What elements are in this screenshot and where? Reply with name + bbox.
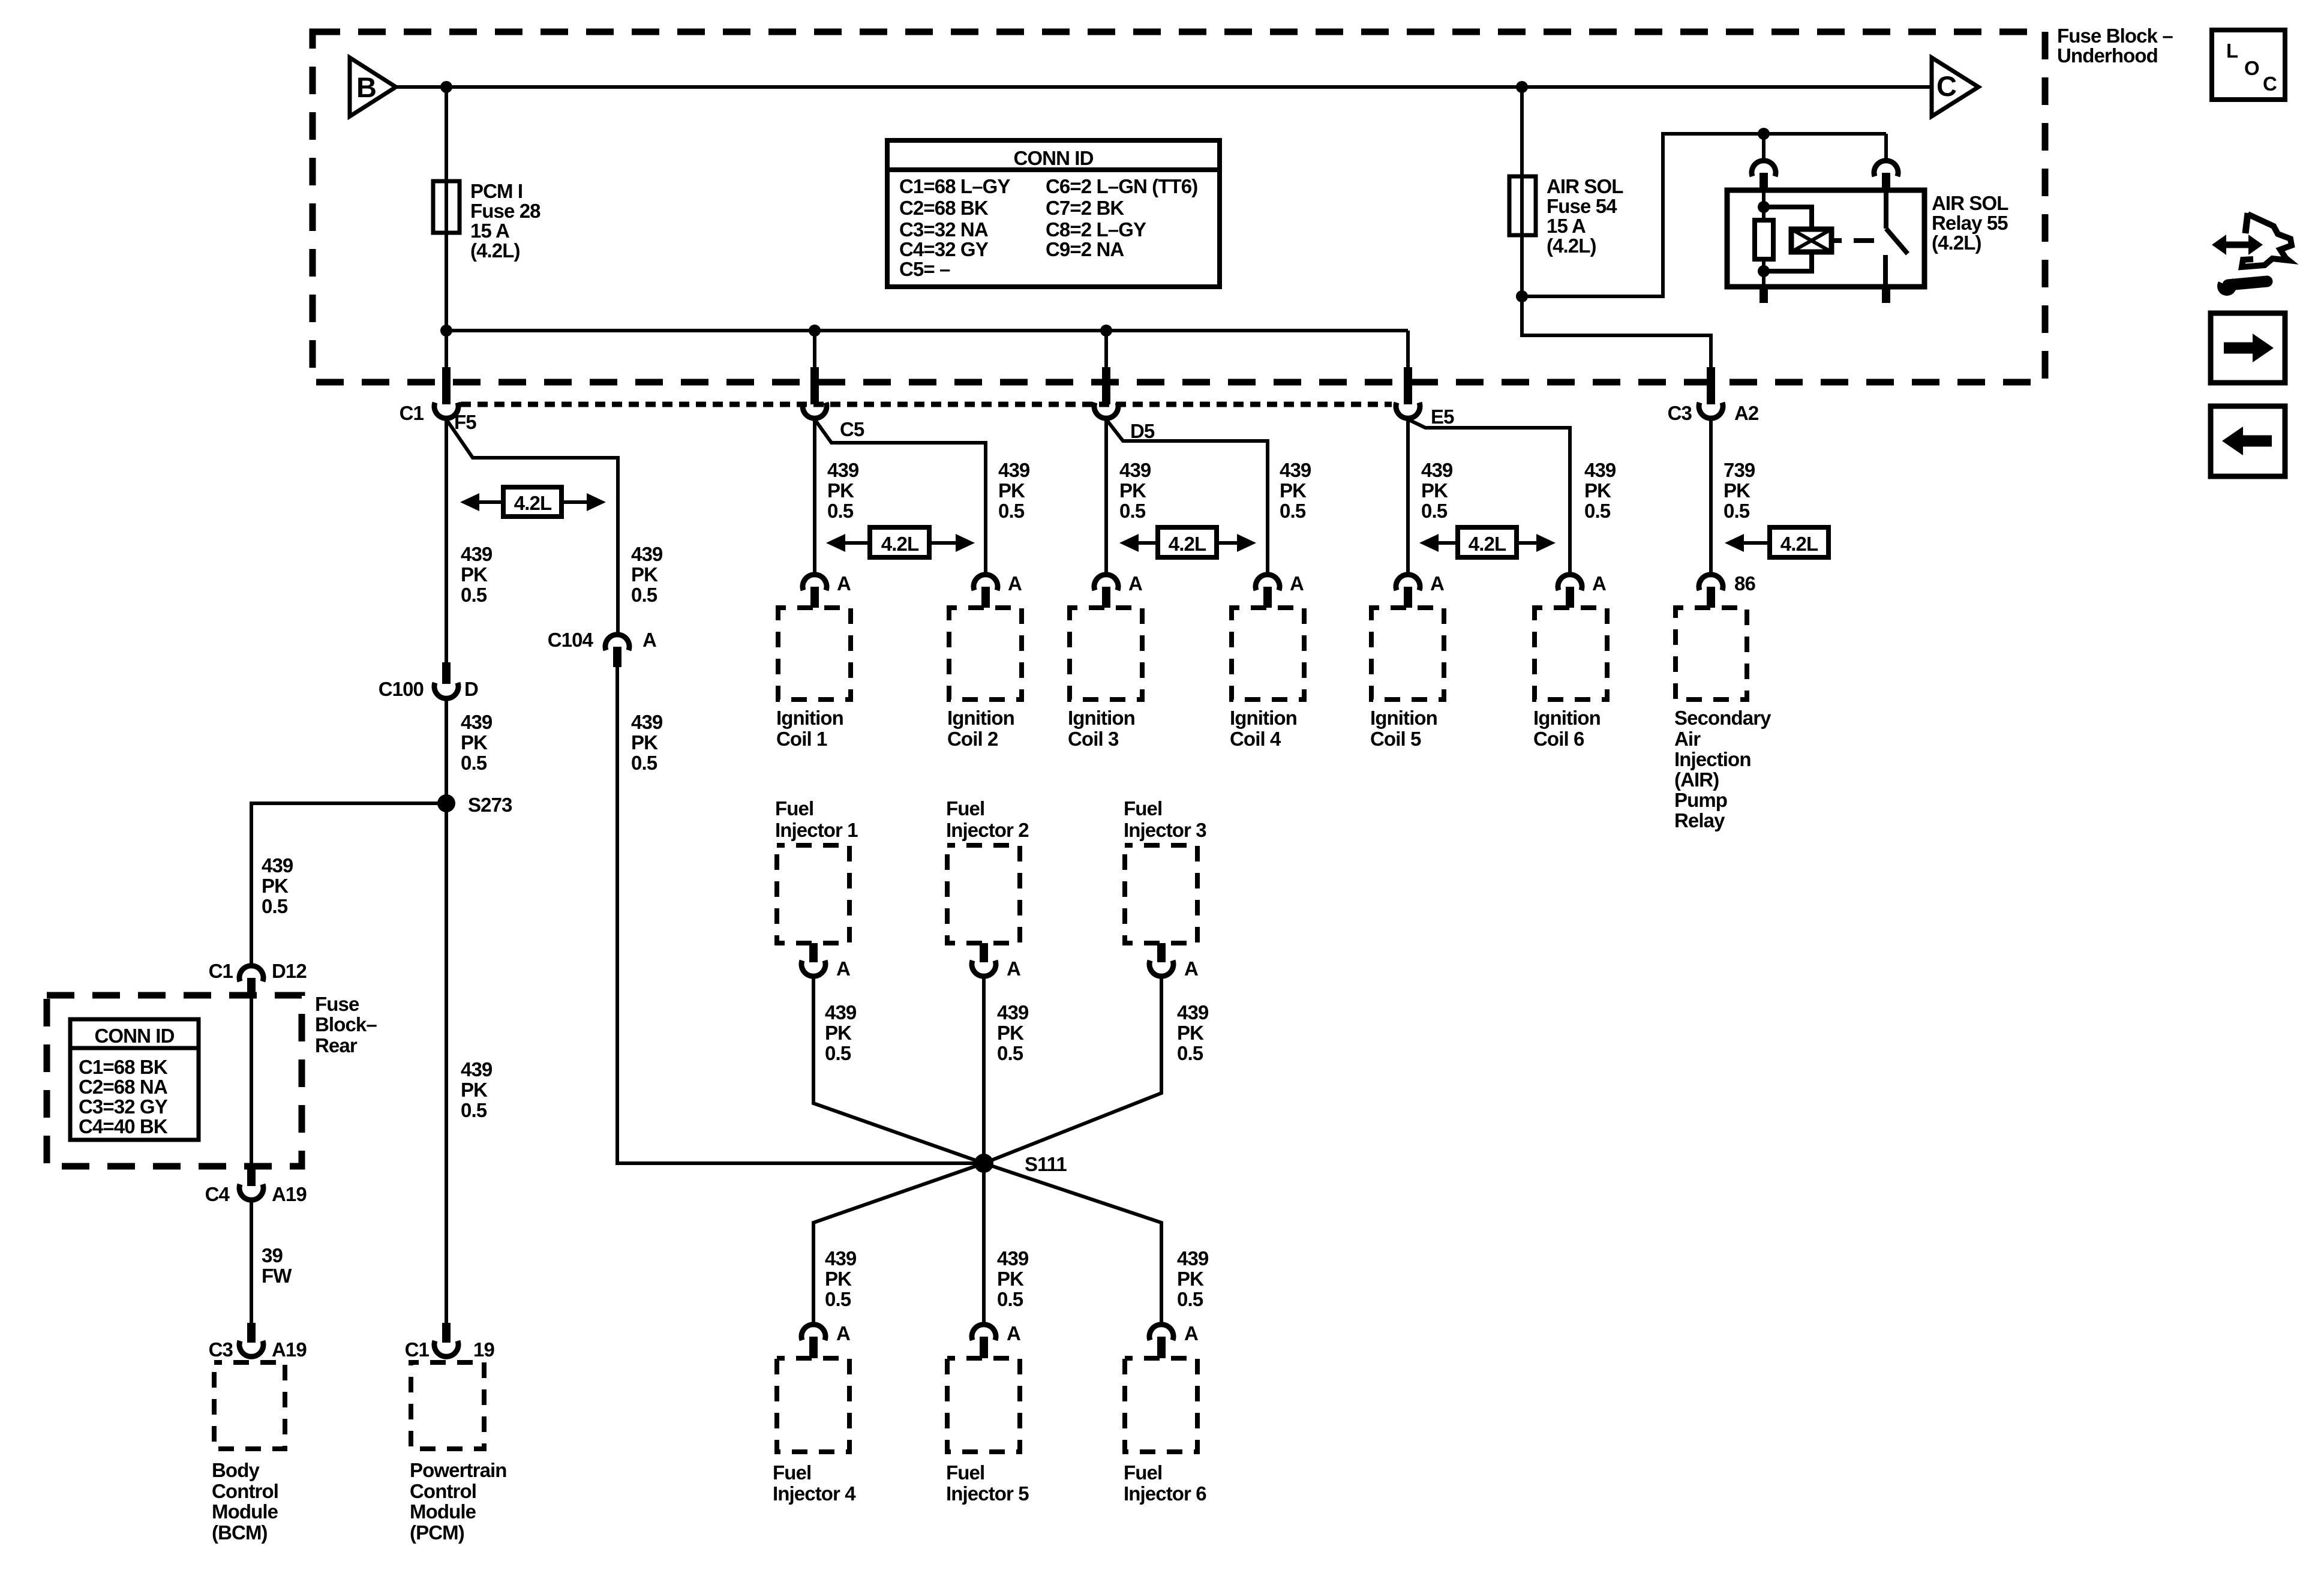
svg-text:A: A	[836, 1322, 850, 1344]
svg-text:C8=2 L–GY: C8=2 L–GY	[1046, 218, 1146, 241]
svg-text:C1: C1	[400, 402, 424, 424]
svg-text:PK: PK	[461, 563, 488, 586]
svg-text:C4=32 GY: C4=32 GY	[899, 238, 989, 260]
svg-text:Fuel: Fuel	[773, 1461, 811, 1484]
svg-text:439: 439	[1421, 459, 1453, 481]
wire injector 3 to S111	[984, 977, 1161, 1163]
ignition coil 5 box	[1371, 608, 1444, 700]
pin stub relay pin 87	[1882, 287, 1890, 303]
connector C100 pin stub	[442, 662, 451, 684]
svg-text:439: 439	[827, 459, 859, 481]
right arrow box	[2211, 313, 2285, 383]
svg-text:0.5: 0.5	[825, 1288, 851, 1310]
svg-text:FW: FW	[262, 1265, 292, 1287]
svg-text:439: 439	[825, 1247, 857, 1269]
svg-text:Block–: Block–	[315, 1013, 377, 1035]
tool icon wrench	[2217, 277, 2236, 296]
svg-text:Coil 1: Coil 1	[776, 728, 827, 750]
svg-text:0.5: 0.5	[825, 1042, 851, 1064]
connector arc injector 4 pin A	[801, 1325, 825, 1340]
pin stub relay pin 85	[1759, 287, 1768, 303]
svg-text:Control: Control	[212, 1480, 278, 1502]
svg-text:C2=68 NA: C2=68 NA	[79, 1076, 167, 1098]
svg-text:PK: PK	[631, 563, 658, 586]
svg-text:Ignition: Ignition	[1230, 707, 1297, 729]
connector arc relay pin 2	[1874, 161, 1898, 176]
CONN ID table (rear)	[70, 1019, 199, 1140]
connector D5 cup	[1094, 403, 1118, 418]
fuel injector 1 cup A	[801, 960, 825, 976]
svg-text:Injector 6: Injector 6	[1124, 1482, 1206, 1505]
svg-text:C5: C5	[840, 418, 864, 440]
svg-text:86: 86	[1734, 572, 1755, 595]
fuel injector 1 label	[775, 797, 858, 841]
splice S111	[974, 1154, 993, 1173]
junction node coil bottom	[1758, 265, 1770, 277]
svg-text:C1: C1	[405, 1338, 430, 1361]
svg-text:Module: Module	[212, 1500, 278, 1523]
svg-text:0.5: 0.5	[1584, 500, 1611, 522]
svg-text:PK: PK	[461, 1079, 488, 1101]
wire relay coil branch	[1762, 191, 1765, 220]
svg-text:4.2L: 4.2L	[1780, 533, 1818, 555]
fuel injector 2 label	[946, 797, 1029, 841]
4.2L tag 3	[1158, 527, 1217, 557]
svg-text:C: C	[2263, 73, 2277, 95]
tool icon outline	[2245, 213, 2248, 233]
connector E5 pin stub	[1404, 367, 1412, 404]
wire label 439 PK 0.5 (inj6)	[1177, 1247, 1209, 1310]
svg-text:C1: C1	[209, 960, 233, 982]
wire label 739 PK 0.5	[1724, 459, 1755, 522]
junction node on B wire	[440, 81, 452, 93]
fuel injector 2 box	[947, 845, 1020, 943]
svg-text:S111: S111	[1025, 1153, 1067, 1175]
switch contact top	[1884, 190, 1888, 229]
svg-text:Ignition: Ignition	[947, 707, 1014, 729]
wire label 439 PK 0.5 (C1 right)	[631, 543, 663, 606]
wire D5 branch to coil 4	[1106, 419, 1268, 573]
svg-text:PK: PK	[825, 1268, 852, 1290]
svg-text:C4: C4	[205, 1183, 230, 1205]
svg-text:A2: A2	[1734, 402, 1759, 424]
svg-text:D12: D12	[272, 960, 307, 982]
svg-text:PK: PK	[631, 731, 658, 754]
svg-text:C2=68 BK: C2=68 BK	[899, 197, 989, 219]
wire label 439 PK 0.5 (inj2)	[997, 1001, 1029, 1064]
svg-text:Fuel: Fuel	[775, 797, 813, 819]
svg-text:0.5: 0.5	[827, 500, 854, 522]
svg-text:439: 439	[631, 711, 663, 733]
svg-text:439: 439	[1280, 459, 1311, 481]
svg-text:A: A	[1128, 572, 1142, 595]
svg-text:(PCM): (PCM)	[410, 1521, 464, 1544]
svg-text:15 A: 15 A	[470, 220, 509, 242]
fuse PCM I Fuse 28	[433, 181, 460, 233]
svg-text:PK: PK	[825, 1022, 852, 1044]
wire relay pin 2	[1884, 134, 1888, 160]
junction node bus at C5	[809, 325, 821, 337]
wire C5 to coil 1	[813, 419, 816, 573]
svg-text:C3: C3	[1668, 402, 1692, 424]
pin stub relay pin 2	[1882, 173, 1890, 191]
svg-text:A: A	[837, 572, 851, 595]
wire label 439 PK 0.5 (coil5)	[1421, 459, 1453, 522]
CONN ID table (underhood)	[887, 140, 1220, 287]
wire label 439 PK 0.5 (coil2)	[998, 459, 1030, 522]
connector C1 19 pin stub	[442, 1323, 451, 1343]
svg-text:Fuel: Fuel	[946, 1461, 984, 1484]
wire label 439 PK 0.5 (C104)	[631, 711, 663, 774]
svg-text:0.5: 0.5	[631, 584, 657, 606]
svg-text:0.5: 0.5	[997, 1288, 1023, 1310]
svg-text:(AIR): (AIR)	[1674, 769, 1719, 791]
svg-text:439: 439	[1177, 1247, 1209, 1269]
svg-text:C100: C100	[379, 678, 424, 700]
svg-text:4.2L: 4.2L	[1169, 533, 1206, 555]
svg-text:Ignition: Ignition	[1068, 707, 1135, 729]
svg-text:L: L	[2226, 40, 2238, 62]
fuel injector 1 pin stub	[809, 943, 818, 962]
junction node coil top	[1758, 201, 1770, 213]
svg-text:439: 439	[825, 1001, 857, 1023]
svg-text:PK: PK	[1280, 479, 1307, 502]
svg-text:19: 19	[473, 1338, 494, 1361]
wire label 439 PK 0.5 (inj1)	[825, 1001, 857, 1064]
svg-text:PK: PK	[997, 1022, 1024, 1044]
svg-text:Fuse 54: Fuse 54	[1547, 195, 1617, 217]
connector C1 D12 arc	[239, 966, 263, 981]
svg-text:PK: PK	[827, 479, 854, 502]
triangle C	[1932, 58, 1978, 116]
4.2L tag 5	[1458, 527, 1517, 557]
ignition coil 2 box	[949, 608, 1022, 700]
fuel injector 3 label	[1124, 797, 1206, 841]
LOC box	[2212, 30, 2285, 100]
wire C5 branch to coil 2	[815, 419, 986, 573]
connector arc injector 5 pin A	[972, 1325, 996, 1340]
wire C1 branch to C104	[446, 419, 618, 632]
svg-text:Fuse 28: Fuse 28	[470, 200, 541, 222]
fuel injector 5 box	[947, 1358, 1020, 1452]
svg-text:0.5: 0.5	[1421, 500, 1448, 522]
svg-text:Fuse Block –: Fuse Block –	[2057, 25, 2173, 47]
svg-text:Fuse: Fuse	[315, 993, 359, 1015]
fuse block rear dashed box	[47, 995, 302, 1166]
svg-text:AIR SOL: AIR SOL	[1932, 192, 2008, 214]
svg-text:PK: PK	[1119, 479, 1146, 502]
connector E5 cup	[1396, 403, 1420, 418]
connector arc relay pin 1	[1752, 161, 1776, 176]
svg-text:Coil 2: Coil 2	[947, 728, 998, 750]
wire fuse to relay coil feed	[1522, 134, 1886, 296]
svg-text:Fuel: Fuel	[1124, 1461, 1162, 1484]
4.2L tag 6	[1770, 527, 1828, 557]
svg-text:A: A	[1184, 1322, 1198, 1344]
svg-text:Ignition: Ignition	[1370, 707, 1437, 729]
svg-text:C104: C104	[548, 629, 594, 651]
wire label 439 PK 0.5 (coil3)	[1119, 459, 1151, 522]
fuel injector 3 cup A	[1149, 960, 1173, 976]
svg-text:PK: PK	[1724, 479, 1750, 502]
switch blade	[1886, 229, 1908, 254]
svg-text:0.5: 0.5	[1280, 500, 1306, 522]
svg-text:0.5: 0.5	[461, 584, 487, 606]
svg-text:C3: C3	[209, 1338, 233, 1361]
ignition coil 4 box	[1232, 608, 1304, 700]
svg-text:4.2L: 4.2L	[881, 533, 919, 555]
svg-text:Injector 4: Injector 4	[773, 1482, 856, 1505]
wire S111 to injector 5	[982, 1163, 986, 1323]
wire S273 branch to fuse block rear	[251, 803, 446, 963]
svg-text:Air: Air	[1674, 728, 1701, 750]
svg-text:(4.2L): (4.2L)	[1547, 235, 1596, 257]
wire inside fuse block rear	[250, 998, 253, 1166]
junction node relay top line	[1758, 128, 1770, 140]
svg-text:0.5: 0.5	[1177, 1042, 1203, 1064]
svg-text:439: 439	[998, 459, 1030, 481]
svg-text:0.5: 0.5	[461, 752, 487, 774]
svg-text:C3=32 NA: C3=32 NA	[899, 218, 988, 241]
pin stub relay pin 1	[1759, 173, 1768, 191]
connector arc AIR relay pin 86	[1699, 575, 1723, 590]
svg-text:Body: Body	[212, 1459, 260, 1481]
svg-text:Secondary: Secondary	[1674, 707, 1771, 729]
svg-text:C7=2 BK: C7=2 BK	[1046, 197, 1124, 219]
relay box AIR SOL Relay 55	[1727, 190, 1924, 287]
ignition coil 6 box	[1535, 608, 1607, 700]
svg-text:A: A	[642, 629, 656, 651]
svg-text:0.5: 0.5	[997, 1042, 1023, 1064]
connector C3 A2 cup	[1699, 403, 1723, 418]
svg-text:439: 439	[262, 854, 293, 876]
wire C100 to S273 to PCM	[445, 700, 448, 1323]
wire solenoid loop bottom	[1764, 252, 1812, 271]
powertrain control module box	[411, 1362, 484, 1449]
wire label 439 PK 0.5 (coil1)	[827, 459, 859, 522]
svg-text:O: O	[2244, 57, 2259, 79]
svg-text:PK: PK	[1177, 1022, 1204, 1044]
wire bus drop E5	[1406, 331, 1410, 382]
wire label 439 PK 0.5 (C1 left)	[461, 543, 493, 606]
connector C104 A pin stub	[613, 647, 621, 667]
svg-text:F5: F5	[454, 411, 476, 433]
svg-text:0.5: 0.5	[1724, 500, 1750, 522]
wire C1 to C100	[445, 419, 448, 662]
fuel injector 3 box	[1125, 845, 1197, 943]
svg-text:Control: Control	[410, 1480, 476, 1502]
svg-text:Coil 4: Coil 4	[1230, 728, 1281, 750]
connector C1 19 cup	[434, 1341, 458, 1356]
svg-text:A: A	[1592, 572, 1606, 595]
svg-text:Fuel: Fuel	[946, 797, 984, 819]
wire C3 A2 to 86	[1709, 419, 1713, 573]
svg-text:PK: PK	[461, 731, 488, 754]
body control module box	[214, 1362, 285, 1449]
svg-text:A: A	[1007, 957, 1020, 980]
svg-text:PCM I: PCM I	[470, 180, 523, 202]
svg-text:0.5: 0.5	[1177, 1288, 1203, 1310]
wire fuse to C3 A2	[1522, 296, 1711, 382]
svg-text:CONN ID: CONN ID	[1013, 147, 1093, 169]
svg-text:0.5: 0.5	[631, 752, 657, 774]
svg-text:AIR SOL: AIR SOL	[1547, 175, 1623, 197]
wire label 439 PK 0.5 (inj4)	[825, 1247, 857, 1310]
secondary air injection pump relay box	[1676, 608, 1747, 700]
4.2L tag 2	[870, 527, 929, 557]
svg-text:Injector 2: Injector 2	[946, 819, 1029, 841]
connector arc coil 6 pin A	[1558, 575, 1582, 590]
svg-text:0.5: 0.5	[262, 895, 288, 917]
svg-text:0.5: 0.5	[461, 1099, 487, 1121]
svg-text:CONN ID: CONN ID	[94, 1025, 174, 1047]
svg-text:Relay: Relay	[1674, 809, 1725, 831]
wire ignition feed bus	[446, 329, 1408, 332]
fuel injector 1 box	[777, 845, 849, 943]
svg-text:0.5: 0.5	[1119, 500, 1146, 522]
svg-text:C3=32 GY: C3=32 GY	[79, 1095, 168, 1118]
wire relay pin 1	[1762, 134, 1765, 160]
wire E5 to coil 5	[1406, 419, 1410, 573]
connector C4 A19 pin stub	[247, 1166, 256, 1186]
svg-text:4.2L: 4.2L	[1469, 533, 1506, 555]
svg-text:(BCM): (BCM)	[212, 1521, 268, 1544]
svg-text:39: 39	[262, 1244, 283, 1266]
svg-text:A: A	[836, 957, 850, 980]
svg-text:439: 439	[461, 1058, 493, 1080]
ignition coil 3 box	[1070, 608, 1142, 700]
svg-text:PK: PK	[1177, 1268, 1204, 1290]
connector C100 D cup	[434, 683, 458, 698]
svg-text:0.5: 0.5	[998, 500, 1025, 522]
svg-text:C9=2 NA: C9=2 NA	[1046, 238, 1124, 260]
connector C4 A19 cup	[239, 1184, 263, 1200]
svg-text:A19: A19	[272, 1338, 307, 1361]
dotted connector line	[461, 402, 1392, 407]
connector C3 A19 pin stub	[247, 1323, 256, 1343]
svg-text:A: A	[1430, 572, 1444, 595]
svg-text:A: A	[1290, 572, 1304, 595]
svg-text:Fuel: Fuel	[1124, 797, 1162, 819]
fuse block underhood dashed box	[313, 32, 2045, 382]
junction node below AIR SOL fuse	[1516, 290, 1528, 302]
fuel injector 6 box	[1125, 1358, 1197, 1452]
wire bus drop D5	[1104, 331, 1108, 382]
wire label 39 FW	[262, 1244, 292, 1287]
svg-text:4.2L: 4.2L	[514, 492, 552, 514]
wire PCM fuse feed	[445, 87, 448, 382]
fuel injector 4 box	[777, 1358, 849, 1452]
connector C1 D12 pin stub	[247, 978, 256, 998]
wire label 439 PK 0.5 (S273 left)	[262, 854, 293, 917]
linkage dash	[1831, 238, 1842, 243]
connector arc coil 5 pin A	[1396, 575, 1420, 590]
svg-text:Underhood: Underhood	[2057, 44, 2158, 67]
svg-text:15 A: 15 A	[1547, 215, 1586, 237]
svg-text:Powertrain: Powertrain	[410, 1459, 507, 1481]
svg-text:439: 439	[461, 711, 493, 733]
fuel injector 2 pin stub	[980, 943, 988, 962]
wire bus drop C5	[813, 331, 816, 382]
wire B to C	[396, 85, 1932, 89]
wire label 439 PK 0.5 (coil4)	[1280, 459, 1311, 522]
4.2L tag 1	[503, 487, 562, 517]
wire C104 to S111	[617, 667, 984, 1163]
svg-text:PK: PK	[1584, 479, 1611, 502]
wire E5 branch to coil 6	[1408, 419, 1570, 573]
svg-text:A: A	[1008, 572, 1022, 595]
svg-text:739: 739	[1724, 459, 1755, 481]
connector C3 A19 cup	[239, 1341, 263, 1356]
svg-text:439: 439	[997, 1001, 1029, 1023]
svg-text:439: 439	[1119, 459, 1151, 481]
wire injector 2 to S111	[982, 977, 986, 1163]
wire label 439 PK 0.5 (C100-S273)	[461, 711, 493, 774]
svg-text:439: 439	[997, 1247, 1029, 1269]
svg-text:A: A	[1184, 957, 1198, 980]
svg-text:A19: A19	[272, 1183, 307, 1205]
tool icon double arrow	[2223, 242, 2252, 248]
connector arc coil 1 pin A	[803, 575, 827, 590]
svg-text:Injector 5: Injector 5	[946, 1482, 1029, 1505]
svg-text:C: C	[1936, 70, 1956, 102]
connector C1 F5 cup	[434, 403, 458, 418]
svg-text:Injector 3: Injector 3	[1124, 819, 1206, 841]
connector C3 A2 pin stub	[1707, 367, 1715, 404]
svg-text:PK: PK	[997, 1268, 1024, 1290]
connector C104 A arc	[605, 635, 629, 650]
svg-text:439: 439	[1177, 1001, 1209, 1023]
svg-text:B: B	[356, 71, 376, 103]
svg-text:(4.2L): (4.2L)	[1932, 232, 1981, 254]
left arrow box	[2211, 406, 2285, 476]
wire AIR SOL fuse feed	[1520, 87, 1524, 296]
connector arc injector 6 pin A	[1149, 1325, 1173, 1340]
svg-text:PK: PK	[262, 875, 289, 897]
fuse AIR SOL Fuse 54	[1509, 176, 1536, 235]
svg-text:S273: S273	[468, 794, 512, 816]
svg-text:Ignition: Ignition	[1533, 707, 1601, 729]
triangle B	[350, 58, 396, 116]
connector C5 pin stub	[810, 367, 819, 404]
wire label 439 PK 0.5 (S273-PCM)	[461, 1058, 493, 1121]
svg-text:Pump: Pump	[1674, 789, 1727, 811]
connector D5 pin stub	[1102, 367, 1110, 404]
relay coil resistor	[1755, 220, 1773, 259]
svg-text:(4.2L): (4.2L)	[470, 239, 520, 262]
solenoid X box	[1791, 229, 1831, 252]
svg-text:C1=68 L–GY: C1=68 L–GY	[899, 175, 1010, 197]
svg-text:C6=2 L–GN (TT6): C6=2 L–GN (TT6)	[1046, 175, 1197, 197]
wire S111 to injector 6	[984, 1163, 1161, 1323]
junction node bus at PCM fuse wire	[440, 325, 452, 337]
svg-text:A: A	[1007, 1322, 1020, 1344]
wire label 439 PK 0.5 (inj3)	[1177, 1001, 1209, 1064]
svg-text:C5= –: C5= –	[899, 258, 950, 280]
svg-text:D: D	[464, 678, 478, 700]
svg-text:Module: Module	[410, 1500, 476, 1523]
junction node at AIR SOL tap	[1516, 81, 1528, 93]
wire label 439 PK 0.5 (inj5)	[997, 1247, 1029, 1310]
splice S273	[437, 794, 455, 812]
svg-text:Coil 6: Coil 6	[1533, 728, 1584, 750]
svg-text:Rear: Rear	[315, 1034, 358, 1056]
connector C1 F5 pin stub	[442, 367, 451, 404]
svg-text:E5: E5	[1431, 406, 1454, 428]
wire D5 to coil 3	[1104, 419, 1108, 573]
fuel injector 2 cup A	[972, 960, 996, 976]
svg-text:Coil 5: Coil 5	[1370, 728, 1421, 750]
